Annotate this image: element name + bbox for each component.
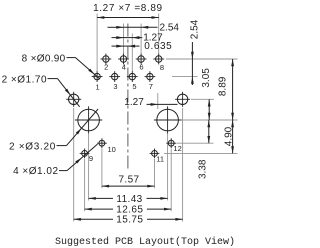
dimension 12.65: line segments: [85, 208, 113, 210]
svg-text:0.635: 0.635: [144, 41, 172, 52]
svg-text:5: 5: [132, 82, 136, 91]
svg-text:6: 6: [139, 63, 143, 72]
svg-text:15.75: 15.75: [116, 215, 143, 226]
svg-text:3.05: 3.05: [201, 68, 212, 88]
extension line hole L down: [73, 108, 75, 222]
dimension 3.38 vert: [208, 120, 210, 143]
svg-text:8 ×Ø0.90: 8 ×Ø0.90: [22, 53, 66, 64]
leader to hole left: [48, 78, 58, 80]
extension line post R down: [167, 134, 169, 201]
extension line pad9 down: [84, 159, 86, 211]
dimension 11.43: line segments: [89, 197, 113, 199]
svg-text:2: 2: [104, 63, 108, 72]
dimension 0.635 horiz: arrows outside: [112, 45, 124, 47]
svg-text:4.90: 4.90: [224, 126, 235, 146]
extension line right of pad11 row: [164, 152, 238, 154]
svg-text:7.57: 7.57: [118, 175, 139, 186]
svg-text:Suggested PCB Layout(Top View): Suggested PCB Layout(Top View): [55, 236, 235, 248]
post hole 3.20 left: [78, 109, 100, 131]
svg-text:1.27 ×7 =8.89: 1.27 ×7 =8.89: [93, 3, 163, 14]
extension line right of pad12 row: [177, 142, 214, 144]
svg-text:11.43: 11.43: [116, 194, 142, 205]
extension line right of hole row: [191, 98, 214, 100]
svg-text:10: 10: [108, 145, 116, 154]
extension line pad5 column: [131, 34, 133, 73]
mounting hole 1.70 right: [177, 94, 187, 104]
dimension 1.27 horiz: arrows outside: [112, 37, 124, 39]
dimension 2.54 horiz: arrows outside: [108, 26, 124, 28]
svg-text:12: 12: [173, 144, 181, 153]
shield pad 12: [168, 140, 174, 146]
dimension 3.05 vert: [208, 99, 210, 120]
shield pad 10: [99, 140, 105, 146]
svg-text:2 ×Ø3.20: 2 ×Ø3.20: [9, 141, 56, 152]
svg-text:2 ×Ø1.70: 2 ×Ø1.70: [2, 74, 47, 85]
svg-text:7: 7: [149, 82, 153, 91]
shield pad 11: [152, 151, 158, 157]
svg-text:2.54: 2.54: [189, 19, 200, 39]
extension line pad11 down: [154, 159, 156, 188]
leader to post left: [57, 145, 67, 147]
svg-text:4 ×Ø1.02: 4 ×Ø1.02: [13, 166, 58, 177]
svg-text:3: 3: [113, 82, 117, 91]
PCB layout drawing: [0, 0, 245, 248]
centerline: [127, 24, 129, 171]
pad pin 1: [94, 73, 100, 79]
pad pin 7: [147, 73, 153, 79]
pad pin 8: [156, 56, 162, 62]
pad pin 2: [103, 56, 109, 62]
svg-text:1: 1: [96, 83, 100, 92]
extension line pad1 column (top dim): [96, 14, 98, 72]
svg-text:11: 11: [156, 155, 164, 164]
pad pin 5: [129, 73, 135, 79]
dimension 8.89 vert: [232, 59, 234, 120]
extension line pad8 column (top dim): [158, 14, 160, 55]
extension line post L down: [88, 134, 90, 201]
shield pad 9: [82, 151, 88, 157]
leader to pad 1: [67, 57, 76, 59]
extension line pad4 column: [123, 24, 125, 55]
extension line pad8 stub (1.27 mid dim): [157, 93, 159, 109]
mounting hole 1.70 left: [69, 94, 79, 104]
extension line hole R down: [182, 108, 184, 222]
svg-text:8: 8: [160, 63, 164, 72]
dimension 2.54 vert: line and outside arrows: [191, 42, 193, 85]
extension line pad6 column: [140, 24, 142, 55]
svg-text:9: 9: [89, 154, 93, 163]
leader through pad 9 to pad 10: [59, 170, 67, 172]
pad pin 6: [138, 56, 144, 62]
svg-text:1.27: 1.27: [124, 97, 144, 108]
svg-text:3.38: 3.38: [197, 159, 208, 179]
svg-text:8.89: 8.89: [218, 76, 229, 96]
dimension 1.27 mid: arrow line: [147, 103, 178, 105]
extension line pad12 down: [170, 149, 172, 211]
extension line right of pad7 row: [172, 76, 198, 78]
dimension 7.57: line: [102, 185, 155, 187]
extension line right of post row: [179, 119, 238, 121]
svg-text:4: 4: [122, 63, 126, 72]
dimension 4.90 vert: [232, 120, 234, 153]
extension line pad10 down: [101, 149, 103, 189]
post hole 3.20 right: [157, 109, 179, 131]
dimension 1.27x7=8.89 top: line: [97, 17, 159, 19]
pad pin 3: [112, 73, 118, 79]
pad pin 4: [120, 56, 126, 62]
dimension 15.75: line segments: [74, 218, 113, 220]
extension line right of pad8 row: [166, 58, 238, 60]
